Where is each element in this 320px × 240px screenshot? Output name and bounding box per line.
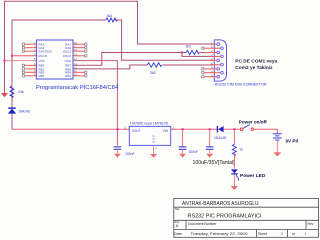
- node dot cap2: [182, 128, 184, 130]
- wire RB7 path up to y52.5 across to junction: [73, 53, 186, 66]
- node dot rail/VDD: [116, 128, 118, 130]
- wire VDD pin right and down to 5V rail: [73, 61, 117, 146]
- wire resistor to vertical x121.6 down to DB9 row5: [115, 20, 213, 60]
- svg-text:VDD: VDD: [65, 59, 72, 63]
- svg-text:VIN: VIN: [163, 129, 169, 133]
- regulator GND pin stem + ground: [153, 145, 155, 154]
- battery ground: [276, 140, 278, 152]
- svg-text:Rev: Rev: [308, 222, 314, 226]
- resistor 10k vertical on x12: [10, 86, 14, 98]
- svg-text:ANTRAK-BARBAROS ASUROGLU: ANTRAK-BARBAROS ASUROGLU: [182, 201, 259, 207]
- wire MCLR pin stub: [12, 55, 37, 57]
- svg-text:2: 2: [155, 146, 157, 150]
- svg-text:100nF: 100nF: [125, 152, 135, 156]
- svg-text:1k: 1k: [239, 148, 243, 152]
- svg-text:Document Number: Document Number: [188, 222, 217, 226]
- IC right pin stubs rows 1,2,3,4,8,9 with terminal squares: [73, 44, 85, 76]
- svg-text:of: of: [292, 232, 295, 236]
- svg-text:RS232 PIC PROGRAMLAYICI: RS232 PIC PROGRAMLAYICI: [188, 213, 262, 219]
- diode D 1N4148 vertical (cathode up): [8, 108, 16, 114]
- svg-text:Power on/off: Power on/off: [239, 119, 267, 124]
- wire resistor to DB9 row6: [162, 64, 213, 66]
- resistor R 2k2 at DB9 (horizontal y=52.5): [186, 50, 199, 54]
- svg-text:MCLR: MCLR: [39, 54, 48, 58]
- svg-text:D: D: [153, 140, 155, 144]
- resistor R 2k2 top (horizontal at y=20): [106, 18, 118, 22]
- svg-text:Sheet: Sheet: [258, 232, 267, 236]
- IC left pin stubs rows 1,2,3,6,7,8,9 with terminal squares: [25, 44, 37, 76]
- resistor R 1k vertical LED: [233, 129, 235, 144]
- ground under left cap: [114, 154, 121, 158]
- svg-text:RA3: RA3: [39, 46, 45, 50]
- label GND: [153, 134, 155, 144]
- DB9 terminal squares rows 2,7,8,9: [202, 47, 204, 78]
- svg-text:1N4148: 1N4148: [18, 110, 29, 114]
- svg-text:PC DE COM1 veya: PC DE COM1 veya: [235, 58, 277, 64]
- node dot cap3: [209, 128, 211, 130]
- diode D 1N4148 horizontal (cathode left): [217, 126, 223, 133]
- LED ground: [233, 174, 235, 186]
- battery B 9V: [273, 134, 282, 140]
- ground VSS arrow bottom-left: [1, 90, 8, 97]
- wire resistor to LED: [233, 154, 235, 169]
- IC U1 PIC16F84 box: [37, 40, 74, 79]
- capacitor C 100nF left (x=117.4): [114, 147, 122, 149]
- svg-text:1: 1: [281, 232, 283, 236]
- wire junction drop to DB9 row4: [182, 53, 213, 57]
- capacitor C 100uF tantal (x=209.7): [209, 129, 211, 147]
- svg-text:9V Pil: 9V Pil: [286, 139, 299, 144]
- svg-text:10k: 10k: [18, 90, 24, 94]
- wire rail right of regulator to diode: [171, 128, 218, 130]
- wire resistor out to DB9 row3: [199, 52, 213, 54]
- svg-text:OSC1: OSC1: [63, 50, 72, 54]
- wire MCLR net vertical x12 and top run to resistor: [12, 20, 106, 129]
- svg-text:100nF: 100nF: [188, 150, 198, 154]
- wire diode to switch: [224, 128, 241, 130]
- IC pin labels left column: [39, 43, 53, 79]
- svg-text:OSC2: OSC2: [63, 54, 72, 58]
- IC pin numbers left 1-9: [34, 41, 36, 77]
- node dot LED branch: [233, 128, 235, 130]
- title block: [174, 198, 319, 237]
- svg-text:RA4/T0CKI: RA4/T0CKI: [39, 50, 53, 54]
- DB9 pin stubs: [204, 44, 221, 76]
- svg-text:RB3: RB3: [39, 74, 45, 78]
- node junction dot at 181.9,52.5: [181, 52, 183, 54]
- capacitor C 100nF right (x=182.6): [182, 129, 184, 147]
- wire RB6 path jog up through resistor to DB9 row6: [73, 65, 147, 69]
- wire VSS pin to left rail: [5, 60, 37, 62]
- svg-text:100uF/35V[Tantal]: 100uF/35V[Tantal]: [193, 160, 236, 166]
- svg-text:A: A: [176, 224, 179, 228]
- svg-text:LM7805 veya LM78L05: LM7805 veya LM78L05: [130, 121, 168, 125]
- wire switch to battery: [254, 129, 278, 133]
- svg-text:Com2 ye Takiniz: Com2 ye Takiniz: [235, 65, 273, 71]
- svg-text:2k2: 2k2: [150, 71, 156, 75]
- DB9 connector J1 body: [214, 40, 226, 81]
- wire perimeter net VSS/GND loop to DB9 pin row1: [5, 1, 214, 92]
- resistor R 2k2 RB6 (horizontal y=65): [147, 63, 162, 67]
- DB9 pin circles left column: [217, 43, 223, 78]
- IC pin labels right column: [63, 43, 72, 79]
- svg-text:2k2: 2k2: [107, 14, 113, 18]
- svg-text:Power LED: Power LED: [240, 173, 266, 179]
- svg-text:RS232 CIM DISI KONNEKTOR: RS232 CIM DISI KONNEKTOR: [215, 82, 267, 87]
- svg-text:Title: Title: [175, 207, 180, 211]
- svg-text:VSS: VSS: [39, 59, 45, 63]
- svg-text:1: 1: [305, 232, 307, 236]
- node VSS junction dot: [4, 60, 6, 62]
- DB9 pin numbers: [211, 41, 213, 78]
- svg-text:Tuesday, February 22, 2000: Tuesday, February 22, 2000: [191, 232, 248, 236]
- switch Power on/off: [240, 125, 253, 131]
- wire 5V rail from diode to regulator: [12, 128, 130, 130]
- svg-text:VOUT: VOUT: [132, 129, 141, 133]
- regulator U 7805 box: [129, 126, 170, 145]
- IC pin numbers right 18-10: [74, 41, 77, 77]
- svg-text:Date:: Date:: [174, 232, 182, 236]
- svg-text:RB4: RB4: [65, 74, 71, 78]
- svg-text:2k2: 2k2: [186, 44, 192, 48]
- svg-text:1N4148: 1N4148: [214, 136, 226, 140]
- LED Power LED (pointing down): [231, 169, 239, 180]
- svg-text:Programlanacak PIC16F84/C84: Programlanacak PIC16F84/C84: [36, 85, 119, 91]
- node MCLR junction dot: [11, 55, 13, 57]
